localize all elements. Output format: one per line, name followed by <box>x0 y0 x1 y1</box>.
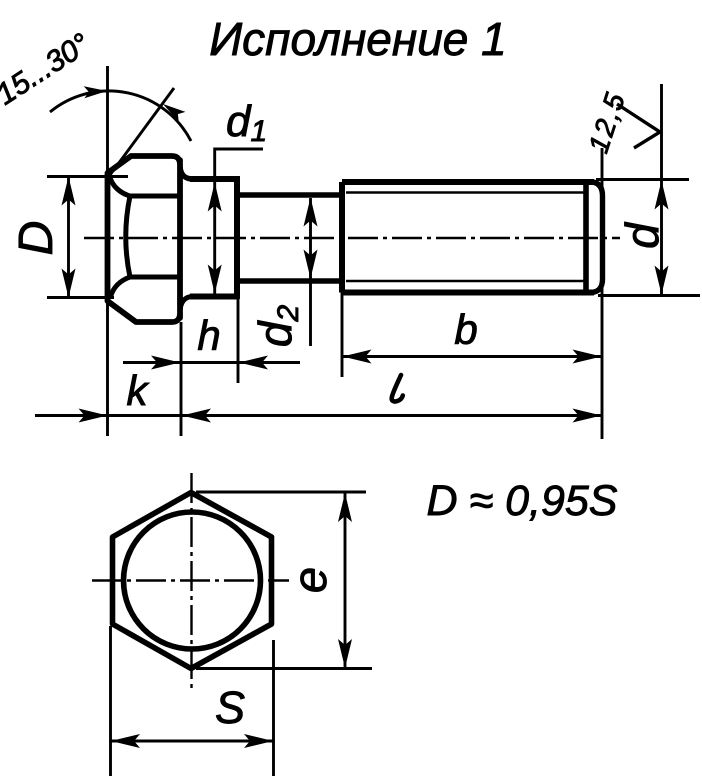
D extension line bottom <box>47 296 114 299</box>
hex head outline <box>108 156 181 322</box>
head facet line top <box>130 194 180 199</box>
d dimension line with roughness pole <box>660 84 663 296</box>
e extension line top <box>196 491 366 494</box>
chamfer angle line 15...30 <box>110 88 174 175</box>
bolt centerline <box>84 237 620 239</box>
roughness check symbol <box>617 104 660 148</box>
label l (script ell) <box>392 375 403 401</box>
S dimension line <box>111 740 274 743</box>
S arrow left <box>111 734 140 748</box>
d1 arrow up <box>208 183 222 212</box>
svg-text:S: S <box>215 682 245 733</box>
D extension line top <box>47 175 128 178</box>
b dimension line <box>342 355 602 358</box>
svg-text:e: e <box>283 567 336 593</box>
thread start face <box>339 182 345 293</box>
k and l dimension line <box>35 414 602 417</box>
D dimension line <box>67 177 70 298</box>
svg-text:D ≈ 0,95S: D ≈ 0,95S <box>427 477 618 525</box>
svg-text:D: D <box>10 221 63 256</box>
D arrow up <box>62 177 76 206</box>
washer cylinder d1 bottom fillet <box>180 297 193 311</box>
h dimension line <box>123 361 300 364</box>
angle arc arrow right <box>160 99 186 122</box>
thread end rounded edge <box>591 182 603 293</box>
k arrow (points right) <box>79 409 108 423</box>
washer cylinder d1 top fillet <box>180 167 193 179</box>
extension line right end <box>601 148 604 439</box>
h arrow (points left at d1 end) <box>239 356 268 370</box>
neck d2 top line <box>239 192 342 197</box>
d2 arrow up <box>304 198 318 227</box>
washer cylinder d1 bottom line <box>190 294 237 300</box>
S arrow right <box>244 734 273 748</box>
svg-text:Исполнение 1: Исполнение 1 <box>209 13 506 65</box>
b arrow left <box>343 350 372 364</box>
h arrow (points right at bearing face) <box>151 356 180 370</box>
d extension line bottom right <box>598 294 700 297</box>
head middle facet arc <box>126 196 130 277</box>
d2 dimension line <box>309 198 312 346</box>
thread minor bottom line <box>346 280 586 282</box>
d1 arrow down <box>208 265 222 294</box>
extension line thread start down <box>341 293 344 378</box>
washer cylinder d1 right face <box>234 176 240 299</box>
d extension line top right <box>596 178 689 181</box>
extension line head left down <box>106 301 109 436</box>
svg-text:h: h <box>197 312 220 359</box>
angle dimension arc <box>50 91 191 141</box>
e extension line bottom <box>196 667 372 670</box>
thread major top line <box>342 179 594 185</box>
e arrow up <box>338 493 352 522</box>
thread minor top line <box>346 191 586 193</box>
S extension line right <box>272 640 275 776</box>
svg-text:k: k <box>127 367 150 414</box>
l arrow right (points right) <box>573 409 602 423</box>
hex vertical centerline <box>190 473 192 688</box>
extension line head bearing face down <box>180 322 183 436</box>
d1 leader shelf <box>215 149 263 294</box>
head top extension line <box>106 66 109 173</box>
d2 arrow down <box>304 250 318 279</box>
d arrow down <box>655 266 669 295</box>
svg-text:d: d <box>616 222 668 249</box>
svg-text:b: b <box>454 306 477 353</box>
angle arc arrow left <box>84 85 108 98</box>
e arrow down <box>338 639 352 668</box>
extension line d1 end down <box>237 299 240 383</box>
e dimension line <box>344 492 347 669</box>
neck d2 bottom line <box>239 278 342 283</box>
hex end view: hexagon <box>113 493 272 669</box>
thread end chamfer line <box>583 185 589 290</box>
D arrow down <box>62 269 76 298</box>
l arrow left (points left) <box>182 409 211 423</box>
head facet line bottom <box>130 275 180 280</box>
hex horizontal centerline <box>92 579 289 581</box>
d arrow up <box>655 181 669 210</box>
washer cylinder d1 top line <box>190 176 237 182</box>
b arrow right <box>573 350 602 364</box>
thread major bottom line <box>342 290 594 296</box>
head bottom facet curve <box>111 277 131 297</box>
S extension line left <box>109 626 112 776</box>
head top facet curve <box>110 176 131 196</box>
hex end view: chamfer circle <box>124 512 261 649</box>
